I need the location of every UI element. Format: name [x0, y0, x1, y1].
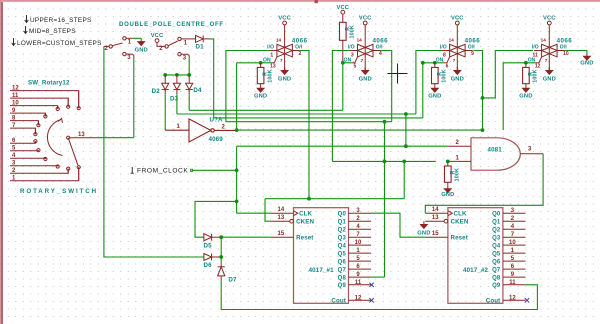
sheet border left strip: [0, 0, 1, 324]
analog switch U2B 4066: [350, 40, 381, 63]
svg-text:1: 1: [270, 52, 273, 58]
ground below resistor R4: [522, 85, 529, 92]
svg-text:11: 11: [355, 280, 362, 286]
svg-text:100K: 100K: [350, 25, 356, 38]
svg-text:3: 3: [351, 52, 354, 58]
wire bus L1 (SW1b pin3 to 4066 B control): [189, 109, 343, 111]
svg-text:MID=8_STEPS: MID=8_STEPS: [29, 28, 76, 35]
svg-text:GND: GND: [278, 76, 291, 82]
counter U4 4017_#1 pin Q8: [349, 276, 372, 278]
svg-text:14: 14: [449, 37, 455, 42]
diode D2: [162, 75, 169, 94]
wire D4 cathode down to bus line L1: [188, 94, 190, 110]
svg-text:7: 7: [453, 58, 456, 63]
counter U5 4017_#2 pin Cout: [503, 299, 526, 301]
svg-text:GND: GND: [441, 192, 454, 198]
junction 4066 C output / inverter output line: [481, 128, 485, 132]
svg-text:Q0: Q0: [492, 212, 501, 218]
counter U4 4017_#1 pin Q7: [349, 268, 372, 270]
AND gate U3A 4081: [471, 138, 520, 170]
wire SW1a pin3 down to rotary pin13 line: [133, 59, 135, 138]
counter U4 4017_#1 pin Q2: [349, 228, 372, 230]
analog switch U2A 4066 VCC: [283, 21, 287, 25]
svg-text:GND: GND: [451, 76, 464, 82]
junction clock net / D5 branch: [235, 200, 239, 204]
svg-text:D4: D4: [193, 87, 202, 94]
svg-text:4066: 4066: [292, 37, 308, 44]
svg-text:Q1: Q1: [338, 220, 347, 226]
junction diode bus / D2: [163, 73, 167, 77]
svg-text:Q9: Q9: [492, 283, 501, 289]
no-connect X at 4017#1 Q9: [369, 283, 373, 287]
resistor R2 100K (4066 B control pullup): [340, 22, 347, 40]
wire reset net line to 4081 pin 1: [332, 160, 435, 162]
counter U4 4017_#1 pin CKEN: [271, 220, 290, 222]
svg-text:CLK: CLK: [299, 211, 312, 218]
counter U4 4017_#1 pin Q0: [349, 212, 372, 214]
ground below resistor R5: [444, 185, 451, 192]
wire SW1a pin2 down to diode D6 anode: [104, 46, 204, 257]
wire clock to 4017#1 CLK stub: [237, 212, 271, 214]
wire 4066 A control riser down to inverter output: [236, 63, 238, 129]
svg-text:12: 12: [355, 295, 362, 301]
analog switch U2C 4066 VCC: [455, 21, 459, 25]
junction 4066 C control / bus L3 riser: [421, 61, 425, 65]
svg-text:13: 13: [432, 215, 439, 221]
wire 4066 B control stub: [343, 62, 352, 64]
wire bus L2 (D3 to 4066 C input): [177, 113, 416, 115]
svg-text:Q4: Q4: [338, 244, 347, 250]
wire 4017#1 Q8 to reset riser: [371, 276, 384, 278]
diode D6: [204, 254, 221, 261]
wire bus L4 (4066 A input to 4066 B output): [226, 121, 392, 123]
diode D1: [189, 35, 210, 42]
svg-text:D5: D5: [204, 242, 213, 249]
counter U4 4017_#1 pin Q4: [349, 244, 372, 246]
rotary switch wiper arm: [68, 138, 78, 166]
svg-text:100K: 100K: [455, 168, 461, 181]
ground below analog switch U2D 4066: [546, 67, 553, 74]
svg-text:4066: 4066: [557, 37, 573, 44]
switch SW1b right pole: [157, 39, 189, 58]
svg-text:8: 8: [443, 52, 446, 58]
svg-text:7: 7: [280, 58, 283, 63]
counter U5 4017_#2 pin Q8: [503, 276, 526, 278]
svg-text:15: 15: [432, 231, 439, 237]
svg-text:7: 7: [361, 58, 364, 63]
svg-text:ROTARY_SWITCH: ROTARY_SWITCH: [20, 188, 98, 195]
wire riser reset line down to CKEN line: [403, 161, 405, 198]
power symbol VCC at switch SW1b: [155, 39, 159, 43]
junction 4066 C control / resistor R3: [433, 61, 437, 65]
switch SW1a throw 3 contact: [123, 52, 126, 55]
counter U4 4017_#1 pin Q1: [349, 220, 372, 222]
svg-text:4: 4: [379, 51, 382, 57]
switch SW1b throw 3 contact: [178, 53, 181, 56]
inverter U1A 4069: [165, 119, 236, 142]
svg-text:12: 12: [535, 64, 541, 70]
counter U5 4017_#2 pin Q4: [503, 244, 526, 246]
svg-text:4066: 4066: [465, 37, 481, 44]
svg-text:O/I: O/I: [376, 45, 383, 51]
switch SW1a common contact: [109, 45, 112, 48]
svg-text:100K: 100K: [533, 69, 539, 82]
svg-text:11: 11: [509, 280, 516, 286]
svg-text:O/I: O/I: [560, 45, 567, 51]
svg-text:Q5: Q5: [492, 252, 501, 258]
diode D3: [173, 75, 180, 94]
switch SW1a throw 1 contact: [123, 37, 126, 40]
svg-text:6: 6: [446, 64, 449, 70]
rotary switch wiper arc: [47, 120, 62, 156]
counter U4 4017_#1 pin Q9: [349, 284, 372, 286]
junction CKEN line / 4066 A output: [307, 197, 311, 201]
sheet border left line: [1, 2, 3, 324]
wire D1 cathode down to bus line L3: [210, 39, 214, 118]
analog switch U2A 4066: [269, 40, 300, 63]
wire 4066 C control to resistor tap: [423, 62, 444, 64]
svg-text:10: 10: [563, 51, 569, 57]
svg-text:Reset: Reset: [296, 235, 313, 242]
annotation arrow LOWER: [12, 38, 16, 46]
wire inverter output line east to 4066 C output: [237, 129, 483, 131]
counter U5 4017_#2 pin Q9: [503, 284, 526, 286]
junction 4066 A control / resistor R1: [259, 61, 263, 65]
wire 4081 output to 4017#2 CLK: [425, 154, 543, 213]
svg-text:Q4: Q4: [492, 244, 501, 250]
svg-text:4081: 4081: [488, 146, 503, 153]
no-connect X at 4017#1 Cout: [369, 298, 373, 302]
wire riser bus L4 up to 4066 A input: [226, 51, 270, 122]
svg-text:7: 7: [545, 58, 548, 63]
svg-text:Q5: Q5: [338, 252, 347, 258]
svg-text:14: 14: [276, 37, 282, 42]
svg-text:VCC: VCC: [337, 5, 350, 11]
junction reset line / Q8 riser: [383, 160, 387, 164]
svg-text:4069: 4069: [209, 136, 224, 143]
wire 4066 B input down to reset net line: [332, 51, 350, 162]
wire inverter line riser up to 4066 D control: [503, 63, 536, 130]
wire clock line east to 4081 pin 2: [237, 145, 449, 147]
resistor R4 100K (4066 D control pulldown): [523, 67, 530, 83]
diode D7: [218, 263, 225, 281]
svg-text:Q2: Q2: [492, 228, 501, 234]
svg-text:Q7: Q7: [338, 268, 347, 274]
svg-text:D6: D6: [204, 262, 213, 269]
switch SW1b common contact: [165, 45, 168, 48]
wire riser bus L3 up to 4066 C control: [422, 63, 424, 118]
svg-text:I/O: I/O: [267, 45, 274, 51]
annotation arrow MID: [24, 26, 28, 34]
counter U4 4017_#1 pin Cout: [349, 299, 372, 301]
svg-text:100K: 100K: [267, 69, 273, 82]
counter U5 4017_#2: [448, 208, 503, 304]
counter U5 4017_#2 pin Q6: [503, 260, 526, 262]
svg-text:GND: GND: [135, 47, 148, 53]
junction diode bus / D4: [187, 73, 191, 77]
svg-text:14: 14: [357, 37, 363, 42]
svg-text:Q1: Q1: [492, 220, 501, 226]
analog switch U2D 4066: [534, 40, 565, 63]
wire 4066 D output to ground: [565, 51, 587, 53]
wire clock net vertical (to 4017#1 CLK): [236, 146, 238, 213]
counter U5 4017_#2 pin Q0: [503, 212, 526, 214]
svg-text:O/I: O/I: [295, 45, 302, 51]
svg-text:Q8: Q8: [492, 276, 501, 282]
svg-text:4017_#1: 4017_#1: [309, 267, 335, 274]
wire riser bus L2 up to 4066 C input: [416, 51, 442, 115]
switch SW1a left pole: [104, 38, 134, 59]
counter U5 4017_#2 pin Reset: [425, 236, 448, 238]
counter U5 4017_#2 pin Q1: [503, 220, 526, 222]
wire D2 cathode down to inverter input: [164, 94, 166, 130]
svg-text:I/O: I/O: [348, 45, 355, 51]
svg-text:Q3: Q3: [338, 236, 347, 242]
svg-text:13: 13: [278, 215, 285, 221]
svg-text:Q6: Q6: [492, 260, 501, 266]
svg-text:VCC: VCC: [151, 33, 164, 39]
svg-text:SW_Rotary12: SW_Rotary12: [28, 79, 70, 86]
junction 4066 B control / resistor R2 / bus L1 riser: [341, 61, 345, 65]
ground below resistor R3: [431, 85, 438, 92]
wire D7 anode to 4017#2 Q9 (bottom loop): [221, 281, 537, 310]
wire D5 cathode to 4017#1 Reset: [221, 236, 271, 238]
counter U5 4017_#2 pin CKEN: [425, 220, 444, 222]
svg-text:15: 15: [278, 231, 285, 237]
ground below analog switch U2B 4066: [362, 67, 369, 74]
svg-text:Q0: Q0: [338, 212, 347, 218]
counter U4 4017_#1 pin Q3: [349, 236, 372, 238]
svg-text:GND: GND: [519, 94, 532, 100]
svg-text:D2: D2: [152, 88, 161, 95]
svg-text:13: 13: [270, 64, 276, 70]
svg-text:DOUBLE_POLE_CENTRE_OFF: DOUBLE_POLE_CENTRE_OFF: [119, 22, 224, 28]
sheet border top tick: [315, 0, 318, 3]
svg-text:Q9: Q9: [338, 283, 347, 289]
svg-text:CLK: CLK: [454, 211, 467, 218]
svg-text:FROM_CLOCK: FROM_CLOCK: [137, 167, 188, 174]
svg-text:CKEN: CKEN: [296, 219, 314, 226]
junction clock line / 4066 C input riser: [404, 144, 408, 148]
svg-text:9: 9: [471, 51, 474, 57]
ground symbol at SW1a pin 1: [138, 38, 145, 45]
counter U5 4017_#2 pin Q3: [503, 236, 526, 238]
diode D5: [204, 234, 221, 241]
svg-text:VCC: VCC: [543, 16, 556, 22]
svg-text:13: 13: [78, 132, 85, 138]
wire bus L3 (D1 to 4066 C control): [214, 117, 423, 119]
counter U5 4017_#2 pin Q5: [503, 252, 526, 254]
svg-text:LOWER=CUSTOM_STEPS: LOWER=CUSTOM_STEPS: [17, 40, 102, 47]
svg-text:D7: D7: [228, 277, 237, 284]
svg-text:10: 10: [355, 240, 362, 246]
svg-text:Q6: Q6: [338, 260, 347, 266]
svg-text:CKEN: CKEN: [451, 219, 469, 226]
wire diode anode bus: [165, 74, 189, 76]
counter U5 4017_#2 pin CLK: [425, 212, 448, 214]
wire 4017#1 Q0 to 4017#2 Reset: [371, 213, 425, 237]
editor cursor crosshair: [388, 64, 408, 84]
wire CKEN line west: [265, 198, 404, 200]
junction clock net / FROM_CLOCK: [235, 168, 239, 172]
svg-text:GND: GND: [428, 94, 441, 100]
analog switch U2D 4066 VCC: [547, 21, 551, 25]
svg-text:100K: 100K: [442, 69, 448, 82]
counter U4 4017_#1 pin CLK: [271, 212, 294, 214]
svg-text:11: 11: [533, 52, 539, 58]
ground symbol at 4017#2 CKEN: [420, 221, 427, 228]
wire rotary pin13 to left switch pin3 (horizontal): [99, 137, 134, 139]
annotation arrow UPPER: [25, 15, 29, 23]
wire 4066 C output down to inverter output line: [473, 51, 482, 131]
svg-text:GND: GND: [417, 230, 430, 236]
svg-text:14: 14: [541, 37, 547, 42]
analog switch U2C 4066: [442, 40, 473, 63]
ground below analog switch U2A 4066: [281, 67, 288, 74]
wire D3 cathode down to bus line L2: [176, 94, 178, 114]
svg-text:O/I: O/I: [468, 45, 475, 51]
ground below analog switch U2C 4066: [454, 67, 461, 74]
svg-text:D1: D1: [196, 43, 205, 50]
counter U4 4017_#1 pin Q6: [349, 260, 372, 262]
wire SW1a pin1 to ground: [134, 37, 141, 39]
svg-text:I/O: I/O: [532, 45, 539, 51]
svg-text:Q2: Q2: [338, 228, 347, 234]
svg-text:4017_#2: 4017_#2: [463, 267, 489, 274]
svg-text:14: 14: [278, 207, 285, 213]
svg-text:12: 12: [509, 295, 516, 301]
resistor R1 100K (4066 A control pulldown): [257, 67, 264, 83]
ground at 4066 D output: [583, 53, 590, 60]
diode D4: [186, 75, 193, 94]
svg-text:UPPER=16_STEPS: UPPER=16_STEPS: [30, 17, 92, 24]
junction inverter output: [235, 128, 239, 132]
switch SW1b throw 1 contact: [178, 37, 181, 40]
junction bus L4 / reset riser: [383, 120, 387, 124]
svg-text:U?A: U?A: [210, 117, 223, 124]
sheet border top strip: [0, 0, 600, 2]
resistor R3 100K (4066 C control pulldown): [432, 67, 439, 83]
svg-text:VCC: VCC: [359, 16, 372, 22]
svg-text:5: 5: [354, 64, 357, 70]
svg-text:GND: GND: [543, 76, 556, 82]
counter U5 4017_#2 pin Q2: [503, 228, 526, 230]
svg-text:14: 14: [432, 207, 439, 213]
svg-text:Q7: Q7: [492, 268, 501, 274]
svg-text:GND: GND: [254, 94, 267, 100]
power symbol VCC above resistor R2: [341, 10, 345, 14]
svg-text:Reset: Reset: [451, 235, 468, 242]
wire SW1b pin3 down to diode bus: [188, 58, 190, 75]
svg-text:Cout: Cout: [486, 298, 501, 305]
svg-text:4066: 4066: [373, 37, 389, 44]
analog switch U2B 4066 VCC: [363, 21, 367, 25]
svg-text:I/O: I/O: [440, 45, 447, 51]
svg-text:Cout: Cout: [331, 298, 346, 305]
svg-text:VCC: VCC: [451, 16, 464, 22]
wire 4066 A output down to 4017#1 CKEN line: [300, 51, 309, 199]
svg-text:2: 2: [298, 51, 301, 57]
wire 4066 A control to resistor tap: [237, 62, 272, 64]
junction D5 cathode / reset#1 line: [219, 235, 223, 239]
junction D6 cathode / D7 line: [219, 255, 223, 259]
svg-text:10: 10: [509, 240, 516, 246]
junction 4066 C output riser / 4066 D input: [481, 96, 485, 100]
junction 4066 D control / resistor R4: [524, 61, 528, 65]
wire riser bus L1 up to 4066 B control: [342, 63, 344, 111]
junction reset line / CKEN branch riser: [402, 160, 406, 164]
svg-text:VCC: VCC: [278, 16, 291, 22]
junction 4081 pin1 / resistor R5: [446, 160, 450, 164]
counter U4 4017_#1 pin Q5: [349, 252, 372, 254]
wire clock branch to diode D5 anode: [195, 201, 237, 237]
wire riser 4066 B output down to bus L4: [380, 51, 392, 122]
wire 4066 C output to 4066 D input: [483, 51, 534, 98]
counter U5 4017_#2 pin Q7: [503, 268, 526, 270]
wire FROM_CLOCK label to clock net: [192, 169, 237, 171]
ground below resistor R1: [257, 85, 264, 92]
junction diode bus / D3: [175, 73, 179, 77]
counter U4 4017_#1: [294, 208, 349, 304]
svg-text:GND: GND: [580, 61, 593, 67]
no-connect X at 4017#2 Cout: [525, 298, 529, 302]
svg-text:Q8: Q8: [338, 276, 347, 282]
svg-text:GND: GND: [359, 76, 372, 82]
wire riser bus L2 down to clock line: [405, 114, 407, 146]
wire D5/D6 cathode down to D7: [220, 237, 222, 263]
counter U4 4017_#1 pin Reset: [271, 236, 294, 238]
resistor R5 100K (4081 pin1 pulldown): [445, 166, 452, 182]
wire reset riser (bus L4 to 4017#1 Q8): [384, 122, 386, 277]
wire down to 4017#1 CKEN: [265, 199, 271, 222]
junction bus L2 / clock riser: [404, 112, 408, 116]
svg-text:Q3: Q3: [492, 236, 501, 242]
